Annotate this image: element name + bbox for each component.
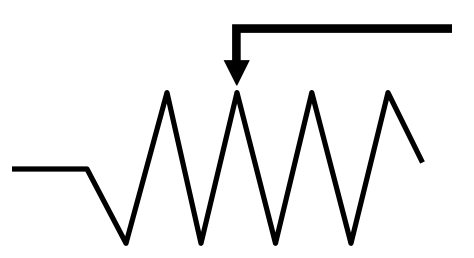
wire: wiper top lead (horizontal run and vertical drop) <box>236 29 452 62</box>
wiper arrowhead pointing down at resistor midpoint <box>224 60 250 86</box>
resistor R (zigzag body with left lead and right diagonal lead) <box>12 93 423 244</box>
